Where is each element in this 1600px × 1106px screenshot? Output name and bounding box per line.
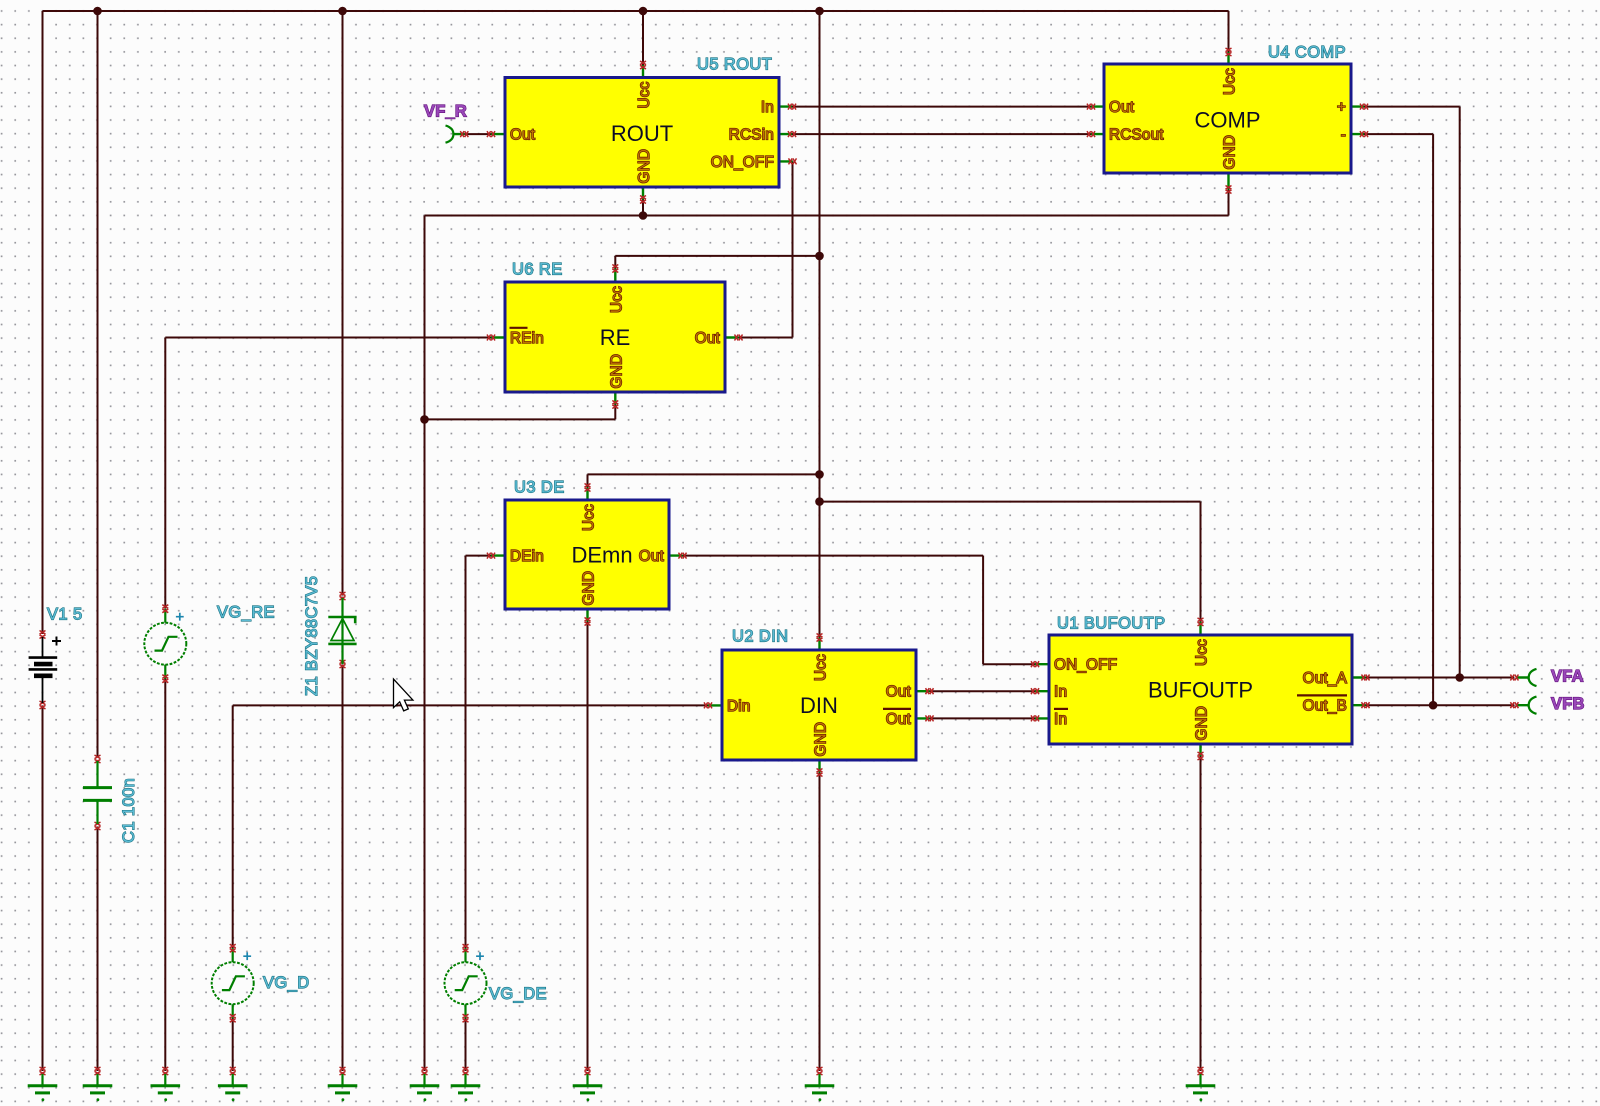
svg-text:Din: Din (727, 698, 751, 715)
svg-text:VG_DE: VG_DE (489, 985, 547, 1003)
svg-text:ON_OFF: ON_OFF (711, 154, 774, 171)
svg-text:U1 BUFOUTP: U1 BUFOUTP (1057, 615, 1166, 633)
svg-text:DIN: DIN (800, 693, 838, 718)
svg-text:VF_R: VF_R (424, 103, 467, 121)
svg-text:VG_D: VG_D (263, 974, 310, 992)
svg-text:Ucc: Ucc (1222, 68, 1239, 95)
svg-text:GND: GND (608, 354, 625, 389)
svg-text:DEmn: DEmn (571, 543, 632, 568)
svg-text:Ucc: Ucc (608, 286, 625, 313)
svg-text:+: + (1337, 99, 1346, 116)
svg-text:RCSout: RCSout (1109, 127, 1164, 144)
svg-text:Out: Out (639, 548, 665, 565)
svg-text:U2 DIN: U2 DIN (732, 628, 789, 646)
svg-text:-: - (1341, 127, 1346, 144)
svg-text:C1 100n: C1 100n (120, 778, 138, 843)
svg-text:Out: Out (886, 684, 912, 701)
svg-text:VFA: VFA (1551, 668, 1584, 686)
svg-text:Ucc: Ucc (581, 504, 598, 531)
svg-text:V1 5: V1 5 (47, 606, 83, 624)
svg-text:U4 COMP: U4 COMP (1268, 44, 1346, 62)
svg-text:ROUT: ROUT (611, 121, 673, 146)
svg-text:GND: GND (581, 571, 598, 606)
svg-text:BUFOUTP: BUFOUTP (1148, 678, 1253, 703)
svg-text:Out_A: Out_A (1303, 670, 1348, 687)
svg-text:DEin: DEin (510, 548, 544, 565)
svg-text:U5 ROUT: U5 ROUT (697, 56, 772, 74)
svg-text:ON_OFF: ON_OFF (1054, 657, 1117, 674)
svg-text:Out: Out (510, 127, 536, 144)
svg-text:U6 RE: U6 RE (512, 261, 563, 279)
svg-text:U3 DE: U3 DE (514, 479, 565, 497)
svg-text:COMP: COMP (1195, 107, 1261, 132)
svg-text:In: In (1054, 711, 1067, 728)
svg-text:VG_RE: VG_RE (217, 604, 275, 622)
svg-text:Out: Out (1109, 99, 1135, 116)
svg-text:Out: Out (695, 330, 721, 347)
svg-text:Out_B: Out_B (1303, 698, 1347, 715)
svg-text:GND: GND (1222, 135, 1239, 170)
svg-text:RE: RE (600, 325, 631, 350)
svg-text:GND: GND (636, 149, 653, 184)
svg-text:Ucc: Ucc (636, 81, 653, 108)
svg-text:In: In (1054, 684, 1067, 701)
svg-text:Ucc: Ucc (813, 654, 830, 681)
svg-text:GND: GND (1194, 706, 1211, 741)
svg-text:REin: REin (510, 330, 544, 347)
svg-text:Out: Out (886, 711, 912, 728)
svg-text:Z1 BZY88C7V5: Z1 BZY88C7V5 (303, 576, 321, 696)
svg-text:RCSin: RCSin (729, 127, 774, 144)
svg-text:Ucc: Ucc (1194, 639, 1211, 666)
svg-text:In: In (761, 99, 774, 116)
svg-text:GND: GND (813, 722, 830, 757)
svg-text:VFB: VFB (1551, 695, 1585, 713)
